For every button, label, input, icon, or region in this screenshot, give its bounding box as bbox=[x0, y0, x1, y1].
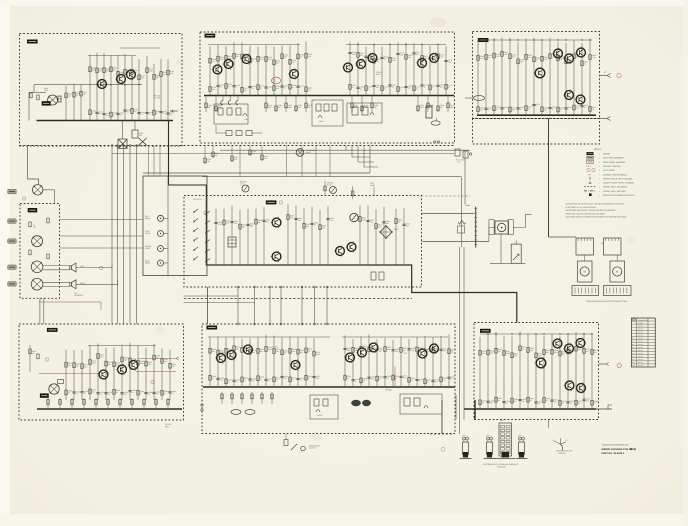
heavy bus bbox=[37, 408, 182, 410]
box: microphone amplifier left bbox=[19, 324, 184, 420]
svg-text:220: 220 bbox=[594, 351, 597, 354]
svg-text:100: 100 bbox=[544, 108, 547, 111]
svg-text:0.1: 0.1 bbox=[530, 399, 532, 402]
relay contact column B bbox=[206, 211, 210, 214]
svg-text:220: 220 bbox=[546, 351, 549, 354]
transistor Q302 bbox=[565, 54, 574, 63]
output amp lower string 13 bbox=[583, 333, 585, 409]
svg-text:50: 50 bbox=[384, 87, 386, 90]
top rail bbox=[88, 55, 136, 57]
svg-text:HEAD: HEAD bbox=[145, 262, 151, 265]
board label bbox=[27, 40, 38, 44]
svg-text:UPPER TRACK LEFT CHANNEL: UPPER TRACK LEFT CHANNEL bbox=[603, 177, 634, 180]
paper edge highlights bbox=[0, 0, 10, 526]
heavy bus bbox=[464, 408, 596, 410]
bus exit right bbox=[596, 408, 612, 410]
oval caps pair bbox=[231, 410, 241, 415]
svg-text:50: 50 bbox=[284, 86, 286, 89]
rec amp R string L7 bbox=[265, 335, 267, 387]
svg-text:25: 25 bbox=[482, 402, 484, 405]
motor square with M bbox=[495, 221, 509, 234]
playback head plug bbox=[296, 149, 304, 157]
transistor Q401 bbox=[272, 218, 281, 227]
transistor Q201 bbox=[213, 65, 222, 74]
svg-text:0.1: 0.1 bbox=[170, 113, 172, 116]
heavy ground bus bbox=[37, 120, 174, 122]
MIC label bbox=[42, 101, 51, 105]
svg-text:2n2: 2n2 bbox=[106, 114, 109, 117]
svg-text:2n2: 2n2 bbox=[220, 379, 223, 382]
rec amp R string L12 bbox=[305, 337, 307, 387]
svg-text:Motor: Motor bbox=[465, 204, 470, 207]
legend row UPPER TRACK LEFT CHANNEL bbox=[589, 177, 591, 180]
svg-text:0.1: 0.1 bbox=[68, 392, 70, 395]
mic amp L string 11 bbox=[153, 344, 155, 400]
wires head box to inputs bbox=[60, 219, 143, 221]
EQ switch cluster mid bbox=[312, 100, 343, 126]
play head adjust cluster bbox=[455, 149, 460, 156]
svg-text:25: 25 bbox=[308, 377, 310, 380]
svg-text:100: 100 bbox=[276, 87, 279, 90]
record amp L string 0 bbox=[209, 46, 211, 95]
svg-text:2n2: 2n2 bbox=[156, 393, 159, 396]
svg-text:50: 50 bbox=[352, 86, 354, 89]
svg-text:47: 47 bbox=[149, 113, 151, 116]
phono jack bbox=[33, 185, 43, 195]
transistor Q305 bbox=[565, 91, 574, 100]
transistor Q402 bbox=[272, 252, 281, 261]
mic amp L string 0 bbox=[65, 350, 67, 400]
record amp L string 8 bbox=[273, 47, 275, 96]
svg-text:↕ TR: ↕ TR bbox=[587, 173, 592, 176]
small caps row bottom bbox=[221, 392, 223, 404]
resistor string short L2 bbox=[80, 84, 82, 120]
transistor Q306 bbox=[576, 95, 585, 104]
svg-text:0.1: 0.1 bbox=[141, 113, 143, 116]
svg-text:NOTES: NOTES bbox=[594, 148, 602, 151]
input network left bbox=[29, 91, 46, 93]
svg-text:10: 10 bbox=[496, 107, 498, 110]
4MFD capacitor bbox=[132, 130, 138, 138]
below-bus resistor row right bbox=[351, 96, 353, 113]
record amp R string 3 bbox=[373, 45, 375, 96]
record amp L string 3 bbox=[233, 42, 235, 95]
board label bbox=[207, 326, 218, 330]
resistor string R109 bbox=[153, 64, 155, 121]
svg-text:25: 25 bbox=[514, 400, 516, 403]
rec amp R string R10 bbox=[424, 336, 426, 387]
svg-text:DEPOSITED CARBON RESISTOR: DEPOSITED CARBON RESISTOR bbox=[603, 194, 635, 197]
test point pink lower bbox=[617, 363, 621, 367]
bottom cluster mid bbox=[400, 394, 442, 414]
heavy bus bottom bbox=[477, 114, 596, 116]
box: head switching (solid) bbox=[143, 176, 207, 276]
rec amp R string R3 bbox=[368, 334, 370, 387]
svg-text:25: 25 bbox=[363, 380, 365, 383]
dashed line under top boxes bbox=[20, 145, 455, 147]
svg-text:220: 220 bbox=[379, 349, 382, 352]
svg-text:M: M bbox=[584, 271, 586, 274]
record amp R string 9 bbox=[421, 44, 423, 96]
erase head switch below LM box bbox=[284, 440, 288, 446]
svg-text:BOARD: BOARD bbox=[603, 153, 611, 156]
svg-text:47: 47 bbox=[268, 380, 270, 383]
rec amp R string R11 bbox=[432, 337, 434, 387]
record amp R string 0 bbox=[349, 42, 351, 95]
resistor string R102 bbox=[103, 53, 105, 121]
svg-text:50: 50 bbox=[220, 86, 222, 89]
test point pink bbox=[617, 73, 621, 77]
output amp lower string 12 bbox=[575, 332, 577, 409]
mic amp L string 8 bbox=[129, 343, 131, 400]
record amp L string 11 bbox=[297, 43, 299, 95]
svg-text:100: 100 bbox=[440, 86, 443, 89]
left speaker jack bbox=[31, 261, 43, 273]
svg-text:69XB: 69XB bbox=[630, 448, 636, 451]
svg-text:2n2: 2n2 bbox=[92, 391, 95, 394]
output amp string 14 bbox=[589, 39, 591, 116]
transistor Q607 bbox=[369, 343, 378, 352]
rec amp R string L11 bbox=[297, 337, 299, 387]
svg-text:47: 47 bbox=[76, 392, 78, 395]
record amp R string 1 bbox=[357, 42, 359, 95]
motor diagram left bbox=[578, 261, 593, 282]
record amp L string 4 bbox=[241, 42, 243, 95]
svg-text:PR 201-4: PR 201-4 bbox=[193, 198, 202, 201]
bridge rectifier bbox=[380, 226, 392, 238]
svg-text:220: 220 bbox=[84, 365, 87, 368]
resistor string short L1 bbox=[73, 84, 75, 121]
transistor Q204 bbox=[290, 70, 299, 79]
svg-text:25: 25 bbox=[116, 391, 118, 394]
below-bus resistor row left bbox=[205, 96, 207, 113]
gray label LINE bbox=[8, 219, 17, 223]
speaker wires bbox=[43, 265, 70, 267]
record amp R string 11 bbox=[437, 46, 439, 96]
svg-text:560: 560 bbox=[416, 53, 419, 56]
transistor Q208 bbox=[418, 59, 427, 68]
output amp string 1 bbox=[485, 41, 487, 115]
svg-text:f 1KC: f 1KC bbox=[244, 118, 249, 121]
pin circles left edge bbox=[201, 404, 203, 406]
svg-text:100: 100 bbox=[576, 107, 579, 110]
input dashed box bbox=[20, 204, 60, 299]
line/radio jack bbox=[32, 236, 43, 247]
output amp string 5 bbox=[517, 42, 519, 115]
motor resistor bbox=[458, 220, 465, 224]
svg-text:CONNECTION TERMINAL: CONNECTION TERMINAL bbox=[603, 173, 628, 176]
rec amp R string L6 bbox=[257, 337, 259, 387]
svg-text:0.1: 0.1 bbox=[228, 381, 230, 384]
legend row TEST POINT bbox=[587, 169, 590, 172]
record amp R string 10 bbox=[429, 46, 431, 96]
output amp lower string 6 bbox=[527, 334, 529, 409]
output amp lower string 4 bbox=[511, 337, 513, 409]
rec amp R string R9 bbox=[416, 337, 418, 387]
svg-text:25: 25 bbox=[99, 113, 101, 116]
svg-text:5: 5 bbox=[536, 105, 537, 108]
svg-text:0.5M: 0.5M bbox=[44, 89, 48, 92]
resistor string short L0 bbox=[65, 86, 67, 121]
transformer diagram left bbox=[576, 238, 594, 255]
svg-text:VOLTAGES GIVEN IN PARENTHESIS: VOLTAGES GIVEN IN PARENTHESIS REFER TO R… bbox=[566, 216, 627, 219]
svg-text:SIGNAL PATH, PLAYBACK: SIGNAL PATH, PLAYBACK bbox=[603, 186, 628, 189]
output amp string 7 bbox=[533, 38, 535, 115]
svg-text:PLAYB: PLAYB bbox=[154, 97, 161, 100]
svg-text:10: 10 bbox=[392, 85, 394, 88]
svg-text:HEAD: HEAD bbox=[145, 232, 151, 235]
svg-text:50: 50 bbox=[488, 109, 490, 112]
svg-text:0.1: 0.1 bbox=[379, 378, 381, 381]
legend row BOARD bbox=[587, 152, 594, 155]
transistor Q601 bbox=[217, 354, 226, 363]
transistor Q501 bbox=[99, 370, 108, 379]
box: record amplifier bbox=[200, 32, 455, 143]
legend row REAR PANEL MARKING bbox=[587, 160, 594, 163]
long verticals motor to batteries bbox=[459, 247, 461, 434]
center box strings bbox=[215, 209, 217, 265]
transistor Q304 bbox=[535, 68, 545, 78]
caps bottom cluster bbox=[371, 272, 376, 280]
svg-text:0.1: 0.1 bbox=[164, 392, 166, 395]
output amp string 8 bbox=[541, 40, 543, 115]
mic amp L string 5 bbox=[105, 348, 107, 400]
svg-text:5: 5 bbox=[504, 108, 505, 111]
svg-text:100: 100 bbox=[244, 89, 247, 92]
transistor Q606 bbox=[358, 348, 367, 357]
record amp R string 2 bbox=[365, 47, 367, 96]
svg-text:50: 50 bbox=[552, 108, 554, 111]
transistor Q101 bbox=[98, 80, 107, 89]
battery lamp 3 bbox=[519, 437, 522, 440]
rec amp R string R5 bbox=[384, 338, 386, 387]
rec amp R string L4 bbox=[241, 339, 243, 387]
rec amp R string L10 bbox=[289, 337, 291, 387]
svg-text:TOP PLATE MARKING: TOP PLATE MARKING bbox=[603, 157, 624, 160]
below-bus resistor row bbox=[47, 398, 49, 409]
transistor Q603 bbox=[244, 345, 253, 354]
svg-text:R CH: R CH bbox=[327, 184, 332, 187]
input board label bbox=[28, 208, 38, 212]
record amp L string 10 bbox=[289, 45, 291, 95]
transistor Q206 bbox=[357, 60, 366, 69]
svg-text:220: 220 bbox=[260, 350, 263, 353]
transistor Q605 bbox=[346, 353, 355, 362]
mic tube V501 bbox=[49, 384, 59, 394]
jack X at dashed crossing bbox=[139, 138, 147, 145]
record amp R string 4 bbox=[381, 47, 383, 96]
mic amp L string 10 bbox=[145, 348, 147, 400]
svg-text:RESISTORS INDICATED IN OHMS UN: RESISTORS INDICATED IN OHMS UNLESS OTHER… bbox=[566, 209, 617, 212]
output terminal upper bbox=[600, 75, 608, 77]
svg-text:0.1: 0.1 bbox=[498, 399, 500, 402]
rec amp R string R7 bbox=[400, 336, 402, 387]
transistor Q202 bbox=[224, 60, 233, 69]
svg-text:ADJUST: ADJUST bbox=[309, 447, 316, 450]
wire below box to phono bbox=[28, 146, 39, 184]
output amp string 6 bbox=[525, 39, 527, 116]
pot R401 bbox=[58, 380, 64, 384]
rec amp R string R2 bbox=[360, 337, 362, 387]
output amp string 13 bbox=[581, 43, 583, 115]
svg-text:47: 47 bbox=[172, 392, 174, 395]
connection table bbox=[631, 318, 655, 367]
pin circles bottom bbox=[434, 141, 436, 143]
legend row LOWER TRACK RIGHT CHANNEL bbox=[589, 181, 591, 184]
transistor Q704 bbox=[536, 358, 546, 368]
rec amp R string L2 bbox=[225, 337, 227, 387]
svg-text:f 85KC: f 85KC bbox=[317, 414, 323, 417]
record amp R string 5 bbox=[389, 44, 391, 96]
svg-text:10: 10 bbox=[360, 88, 362, 91]
svg-text:560: 560 bbox=[520, 61, 523, 64]
record amp L string 6 bbox=[257, 47, 259, 96]
transformer diagram right bbox=[604, 238, 622, 255]
svg-text:47: 47 bbox=[300, 379, 302, 382]
long rail 3 bbox=[143, 172, 370, 174]
svg-text:220: 220 bbox=[308, 350, 311, 353]
mic amp L string 4 bbox=[97, 344, 99, 400]
EQ bottom row bbox=[226, 131, 232, 136]
transistor Q701 bbox=[553, 339, 562, 348]
transistor Q207 bbox=[368, 54, 377, 63]
resistor string R106 bbox=[131, 56, 133, 121]
svg-text:LOWER TRACK RIGHT CHANNEL: LOWER TRACK RIGHT CHANNEL bbox=[603, 182, 635, 185]
svg-text:REC: REC bbox=[165, 426, 170, 429]
svg-text:f 4KC: f 4KC bbox=[319, 120, 324, 123]
mic amp L string 12 bbox=[161, 349, 163, 400]
rec amp R string L9 bbox=[281, 337, 283, 387]
resistor string R111 bbox=[167, 59, 169, 120]
svg-text:PR2: PR2 bbox=[273, 78, 276, 81]
box: playback amplifier left channel bbox=[20, 34, 183, 147]
svg-text:220: 220 bbox=[264, 157, 267, 160]
record amp R string 12 bbox=[445, 46, 447, 95]
svg-text:2n2: 2n2 bbox=[284, 377, 287, 380]
output amp string 12 bbox=[573, 40, 575, 115]
svg-text:0.1: 0.1 bbox=[132, 391, 134, 394]
rec amp R string R4 bbox=[376, 339, 378, 387]
resistor string R100 bbox=[89, 54, 91, 120]
svg-text:RIGHT: RIGHT bbox=[80, 282, 86, 285]
rec amp R string L3 bbox=[233, 337, 235, 387]
transistor Q503 bbox=[129, 361, 138, 370]
rec amp R string L0 bbox=[209, 337, 211, 387]
mic amp L string 6 bbox=[113, 347, 115, 400]
svg-text:10: 10 bbox=[228, 85, 230, 88]
2TK oval bbox=[431, 121, 440, 125]
svg-text:PRESET CONTROL: PRESET CONTROL bbox=[603, 165, 622, 168]
record amp R string 6 bbox=[397, 42, 399, 95]
transistor Q705 bbox=[565, 381, 574, 390]
svg-text:10: 10 bbox=[260, 86, 262, 89]
transistor Q502 bbox=[118, 365, 127, 374]
svg-text:SWITCH: SWITCH bbox=[559, 452, 567, 455]
svg-text:47: 47 bbox=[506, 402, 508, 405]
svg-text:47: 47 bbox=[570, 402, 572, 405]
transistor Q209 bbox=[430, 54, 439, 63]
svg-text:47: 47 bbox=[140, 392, 142, 395]
right speaker horn bbox=[72, 280, 77, 289]
record amp L string 9 bbox=[281, 45, 283, 95]
svg-text:2n2: 2n2 bbox=[554, 400, 557, 403]
svg-text:0.1: 0.1 bbox=[594, 402, 596, 405]
output amp lower string 5 bbox=[519, 332, 521, 409]
svg-text:SPEAKER: SPEAKER bbox=[74, 294, 83, 297]
svg-text:47: 47 bbox=[108, 393, 110, 396]
svg-text:220: 220 bbox=[322, 226, 325, 229]
output amp lower string 8 bbox=[543, 336, 545, 409]
rec amp R string L5 bbox=[249, 338, 251, 387]
legend row TOP PLATE MARKING bbox=[587, 156, 594, 159]
cap row below bus bbox=[221, 101, 223, 105]
output terminal red bbox=[599, 363, 607, 365]
svg-text:220: 220 bbox=[83, 93, 86, 96]
output amp lower string 14 bbox=[591, 333, 593, 409]
rec amp R string R13 bbox=[448, 334, 450, 387]
svg-text:2n2: 2n2 bbox=[163, 112, 166, 115]
bottom section cluster left bbox=[310, 395, 338, 419]
test point circles scattered bbox=[22, 197, 25, 200]
svg-text:ELECTROLYTIC μF AND VOLTAGE: ELECTROLYTIC μF AND VOLTAGE bbox=[566, 206, 597, 209]
svg-text:L CH: L CH bbox=[240, 183, 245, 186]
resistor string R107 bbox=[138, 59, 140, 120]
wires speaker box down to mic amp bbox=[39, 298, 41, 324]
svg-text:100: 100 bbox=[480, 108, 483, 111]
bus rail mid bbox=[34, 84, 142, 86]
svg-text:ADJ: ADJ bbox=[457, 161, 460, 164]
table pink testpoint bbox=[617, 364, 621, 368]
svg-text:10: 10 bbox=[592, 108, 594, 111]
svg-text:5: 5 bbox=[368, 87, 369, 90]
svg-text:47: 47 bbox=[236, 381, 238, 384]
svg-text:220: 220 bbox=[99, 70, 102, 73]
bias trap cluster right bbox=[347, 103, 382, 123]
heavy bus bbox=[203, 386, 455, 388]
resistor string R105 bbox=[124, 54, 126, 121]
svg-text:2n2: 2n2 bbox=[371, 377, 374, 380]
gray label LEFT bbox=[8, 265, 17, 269]
svg-text:Tandbergs Radiofabrikk A/S: Tandbergs Radiofabrikk A/S bbox=[602, 444, 630, 447]
svg-text:5: 5 bbox=[568, 108, 569, 111]
record amp L string 12 bbox=[305, 42, 307, 96]
svg-text:50: 50 bbox=[416, 87, 418, 90]
extension outline bbox=[473, 119, 600, 145]
svg-text:TRANSFORMER AND MOTOR CONNECTI: TRANSFORMER AND MOTOR CONNECTIONS bbox=[586, 300, 628, 303]
svg-text:47: 47 bbox=[120, 114, 122, 117]
output amp string 10 bbox=[557, 42, 559, 115]
heavy record path bbox=[169, 121, 207, 242]
output amp lower string 9 bbox=[551, 334, 553, 409]
svg-text:220: 220 bbox=[278, 106, 281, 109]
relay box bbox=[511, 244, 521, 263]
svg-text:2n2: 2n2 bbox=[403, 377, 406, 380]
svg-text:2n2: 2n2 bbox=[490, 402, 493, 405]
top rail bbox=[480, 333, 592, 335]
motor winding bar bbox=[475, 207, 477, 248]
svg-text:560: 560 bbox=[284, 55, 287, 58]
output amp string 9 bbox=[549, 38, 551, 116]
microphone tube V101 bbox=[48, 95, 58, 105]
output amp lower string 1 bbox=[487, 331, 489, 409]
record amp R string 7 bbox=[405, 43, 407, 96]
horizontal links bbox=[184, 295, 239, 297]
svg-text:5: 5 bbox=[268, 87, 269, 90]
transistor Q609 bbox=[430, 344, 439, 353]
record amp R string 8 bbox=[413, 43, 415, 95]
right top rail bbox=[346, 44, 446, 46]
dashed playback path line bbox=[184, 297, 412, 299]
